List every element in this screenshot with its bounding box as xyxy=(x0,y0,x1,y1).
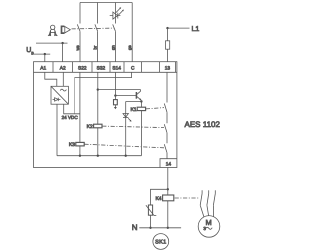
relay coil K3 xyxy=(76,142,84,146)
node emitter xyxy=(140,100,142,102)
node N varistor xyxy=(149,227,151,229)
svg-text:br: br xyxy=(93,45,98,49)
contactor coil K4 xyxy=(163,195,174,201)
N rail xyxy=(139,227,181,229)
wire S22 branch upper xyxy=(79,3,81,24)
linkage K4 dash-dot xyxy=(175,197,199,199)
wire output 13 internal xyxy=(166,72,168,102)
terminal strip bottom line xyxy=(34,71,177,73)
linkage K1 dash-dot xyxy=(146,108,164,109)
node A2 tap xyxy=(61,42,63,44)
wire C branch xyxy=(131,3,133,62)
node bus K2 xyxy=(97,155,99,157)
arrow resistor end xyxy=(114,107,117,109)
svg-text:C: C xyxy=(131,65,135,71)
wire suppressor branch xyxy=(151,189,168,205)
node suppressor tap xyxy=(167,188,169,190)
wire K2 to bus xyxy=(97,128,99,156)
contact K4 phase 3 xyxy=(213,194,215,206)
relay coil K2 xyxy=(94,124,102,128)
contact sensor 3 xyxy=(113,24,116,31)
node collector tap xyxy=(97,88,99,90)
terminal dividers xyxy=(53,62,176,73)
contact K3 output xyxy=(164,144,167,152)
contact K1 output xyxy=(164,104,167,113)
svg-text:A1: A1 xyxy=(40,65,46,71)
wire between contacts 1-2 xyxy=(166,112,168,123)
mechanical linkage dash-dot xyxy=(72,27,115,30)
svg-text:S32: S32 xyxy=(97,65,106,71)
wire S22 branch lower xyxy=(79,31,81,62)
linkage K3 dash-dot xyxy=(84,144,164,148)
wire base xyxy=(115,95,136,97)
wire motor phase 1 xyxy=(200,205,204,217)
terminal 14 box xyxy=(160,159,177,168)
wire varistor to N xyxy=(150,215,152,228)
wire A1 drop xyxy=(44,54,46,62)
svg-text:ws: ws xyxy=(75,45,80,50)
wire C rail drop faint xyxy=(74,78,76,114)
wire motor phase 2 xyxy=(207,205,209,216)
svg-text:M: M xyxy=(205,218,211,227)
svg-text:gn: gn xyxy=(110,45,115,50)
node L1 tap xyxy=(166,27,168,29)
svg-text:13: 13 xyxy=(165,65,171,71)
contact K4 phase 2 xyxy=(207,194,209,206)
svg-text:AES 1102: AES 1102 xyxy=(185,120,221,129)
node bus LED xyxy=(125,155,127,157)
wire S14 internal xyxy=(114,72,116,99)
wire contact3 to 14 xyxy=(166,153,168,159)
svg-text:N: N xyxy=(132,223,138,232)
svg-text:L1: L1 xyxy=(192,26,200,33)
svg-text:K3: K3 xyxy=(69,142,75,148)
linkage K2 dash-dot xyxy=(102,126,164,128)
wire between contacts 2-3 xyxy=(166,133,168,144)
wire A2 drop xyxy=(62,43,64,62)
wire A2 internal xyxy=(62,72,64,86)
svg-text:K2: K2 xyxy=(87,124,93,130)
fuse F1 xyxy=(166,41,170,49)
wire LED branch xyxy=(125,102,127,156)
wire fuse to 13 xyxy=(167,49,169,62)
wire to L1 xyxy=(168,27,190,29)
wire collector xyxy=(98,90,141,95)
contact K2 output xyxy=(164,124,167,133)
svg-text:S14: S14 xyxy=(112,65,121,71)
UB upper rail xyxy=(36,42,68,44)
wire emitter node xyxy=(126,102,142,108)
motor M1 xyxy=(198,216,220,238)
actuator arrow symbol xyxy=(62,26,71,33)
power supply unit xyxy=(51,86,68,104)
wire psu right out xyxy=(64,104,80,114)
wire resistor stub xyxy=(114,105,116,107)
wire S32 branch upper xyxy=(97,3,99,24)
wire S14 lower xyxy=(114,31,116,62)
relay coil K1 xyxy=(137,107,145,110)
svg-text:B: B xyxy=(31,51,34,55)
wire K3 feed xyxy=(79,72,81,142)
actuator icon xyxy=(48,25,57,36)
wire K1 to bus xyxy=(140,111,142,156)
svg-text:A2: A2 xyxy=(60,65,66,71)
label SK1 xyxy=(153,234,169,250)
wire K2 feed xyxy=(97,72,99,124)
phase stub 3 xyxy=(214,190,216,193)
wire motor phase 3 xyxy=(212,205,214,217)
svg-text:24 VDC: 24 VDC xyxy=(62,115,79,120)
contact sensor 2 xyxy=(95,24,98,31)
wire psu left out xyxy=(56,104,58,156)
svg-text:SK1: SK1 xyxy=(155,240,166,246)
svg-text:K4: K4 xyxy=(155,196,161,202)
contact sensor 1 xyxy=(77,24,80,31)
UB lower rail xyxy=(34,53,50,55)
svg-text:ge: ge xyxy=(127,45,132,50)
svg-text:14: 14 xyxy=(166,161,172,167)
svg-text:S22: S22 xyxy=(78,65,87,71)
node S14 tap xyxy=(114,94,116,96)
svg-text:K1: K1 xyxy=(130,107,136,113)
LED indicator D1 xyxy=(110,7,124,19)
wire A1 internal xyxy=(45,72,57,86)
relay body outline xyxy=(34,62,177,168)
varistor xyxy=(146,205,156,216)
wire L1 to fuse xyxy=(167,28,169,41)
phase stub 2 xyxy=(208,190,210,193)
contact K4 phase 1 xyxy=(200,194,202,206)
wire S14 branch xyxy=(114,3,116,24)
node A1 tap xyxy=(44,53,46,55)
LED indicator D2 xyxy=(123,114,132,122)
internal bottom bus xyxy=(57,155,141,157)
wire C internal rail xyxy=(74,72,131,77)
wire 14 to K4 xyxy=(167,168,169,196)
top bus wire xyxy=(80,2,132,4)
wire K3 to bus xyxy=(79,146,81,156)
transistor Q1 xyxy=(136,92,141,100)
phase stub 1 xyxy=(201,190,203,193)
resistor R1 xyxy=(114,100,118,105)
wire K4 to N xyxy=(167,201,169,228)
wire S32 branch lower xyxy=(97,31,99,62)
node N K4 xyxy=(167,227,169,229)
node bus K3 xyxy=(79,155,81,157)
